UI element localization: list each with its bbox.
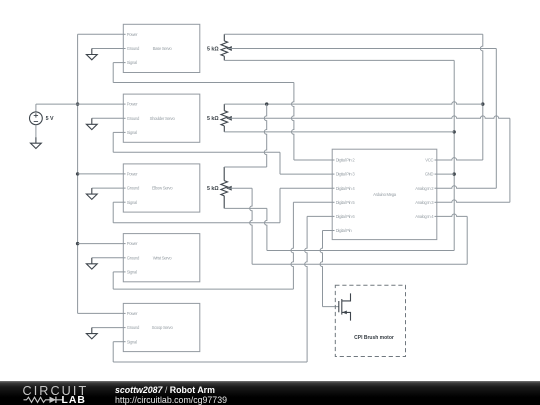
- svg-text:LAB: LAB: [62, 395, 86, 405]
- svg-text:Ground: Ground: [127, 186, 140, 191]
- node 5V-elbow junction: [76, 172, 79, 175]
- svg-text:Base Servo: Base Servo: [153, 46, 173, 51]
- ground for servo5: [86, 328, 97, 339]
- svg-text:5 kΩ: 5 kΩ: [207, 186, 219, 192]
- svg-text:Scoop Servo: Scoop Servo: [152, 325, 174, 330]
- wire wrist signal: [113, 272, 293, 289]
- servo box U5 Scoop Servo: [123, 303, 200, 351]
- svg-text:Ground: Ground: [127, 255, 140, 260]
- transistor Q1 NMOS: [339, 293, 351, 320]
- wire In3 pin: [437, 200, 510, 202]
- svg-text:5 V: 5 V: [46, 116, 54, 122]
- svg-text:Analog In 4: Analog In 4: [415, 214, 434, 219]
- wire base signal riser to pin2: [292, 83, 333, 161]
- wire servo4 ground: [92, 257, 124, 259]
- svg-text:Digital Pin 4: Digital Pin 4: [336, 186, 356, 191]
- wire scoop signal: [113, 342, 307, 362]
- node R2top-link junction: [265, 102, 268, 105]
- wire servo3 ground: [92, 187, 124, 189]
- svg-text:Ground: Ground: [127, 116, 140, 121]
- wire 5V rail: [77, 34, 79, 313]
- node 5V-shoulder junction: [76, 102, 79, 105]
- svg-text:Digital Pin 3: Digital Pin 3: [336, 172, 356, 177]
- svg-text:Signal: Signal: [127, 130, 137, 135]
- node VCC-R2 junction: [481, 102, 484, 105]
- wire elbow signal riser to pin4: [280, 188, 332, 223]
- wire shoulder signal: [113, 132, 280, 152]
- svg-text:Elbow Servo: Elbow Servo: [152, 186, 173, 191]
- servo box U1 Base Servo: [123, 24, 200, 72]
- svg-text:Power: Power: [127, 102, 138, 107]
- CircuitLab logo: [23, 384, 89, 405]
- wire V1 to shoulder power: [36, 103, 123, 105]
- svg-text:Analog In 3: Analog In 3: [415, 200, 434, 205]
- wire R2 wiper to In3: [228, 116, 510, 118]
- svg-text:Signal: Signal: [127, 200, 137, 205]
- svg-text:Signal: Signal: [127, 270, 137, 275]
- svg-text:Shoulder Servo: Shoulder Servo: [150, 116, 176, 121]
- servo box U4 Wrist Servo: [123, 234, 200, 282]
- wire In4 pin: [437, 214, 467, 216]
- wire shoulder signal riser to pin3: [280, 152, 332, 174]
- wire base signal: [113, 63, 294, 83]
- wire R3 bottom drop: [265, 208, 267, 250]
- wire elbow power: [78, 173, 124, 175]
- svg-text:Power: Power: [127, 241, 138, 246]
- wire pin7 to gate: [320, 231, 339, 307]
- wire base power: [78, 33, 124, 35]
- wire R2 bottom: [224, 131, 454, 133]
- wire link to R3 top: [224, 166, 267, 168]
- servo box U2 Shoulder Servo: [123, 94, 200, 142]
- ground for servo3: [86, 188, 97, 199]
- wire R3 wiper: [228, 187, 252, 189]
- svg-text:Digital Pin 5: Digital Pin 5: [336, 200, 356, 205]
- voltage source V1 5 V: [30, 104, 55, 137]
- wire servo2 ground: [92, 117, 124, 119]
- svg-text:Power: Power: [127, 32, 138, 37]
- wire In2 rail: [495, 49, 497, 189]
- svg-text:Signal: Signal: [127, 60, 137, 65]
- potentiometer R2 5k: [207, 104, 232, 132]
- wire In3 rail: [509, 118, 511, 202]
- svg-text:Ground: Ground: [127, 46, 140, 51]
- ground for V1: [31, 137, 42, 148]
- wire R1 top to VCC rail: [224, 33, 483, 35]
- wire wrist power: [78, 243, 124, 245]
- wire scoop signal riser to pin6: [305, 216, 333, 362]
- subcircuit box CPI Brush motor: [335, 285, 405, 356]
- wire servo5 ground: [92, 327, 124, 329]
- wire pot-top link vertical: [264, 104, 266, 167]
- svg-text:Power: Power: [127, 172, 138, 177]
- ground for servo4: [86, 258, 97, 269]
- svg-text:Ground: Ground: [127, 325, 140, 330]
- wire R1 bottom to GND rail: [224, 59, 454, 61]
- servo box U3 Elbow Servo: [123, 164, 200, 212]
- svg-text:Wrist Servo: Wrist Servo: [153, 255, 172, 260]
- svg-text:Digital Pin 2: Digital Pin 2: [336, 158, 356, 163]
- wire servo1 ground: [92, 48, 124, 50]
- wire wrap-under GND: [267, 250, 454, 252]
- svg-text:Digital Pin: Digital Pin: [336, 228, 353, 233]
- potentiometer R1 5k: [207, 34, 232, 60]
- svg-text:CPI Brush motor: CPI Brush motor: [354, 335, 394, 341]
- svg-text:Arduino Mega: Arduino Mega: [373, 192, 397, 197]
- wire wrap-under In4: [252, 263, 467, 265]
- wire GND pin: [437, 173, 454, 175]
- wire R3 wiper drop: [250, 188, 252, 264]
- svg-text:VCC: VCC: [425, 158, 433, 163]
- wire In4 rail: [466, 216, 468, 264]
- node GND-R2 junction: [453, 130, 456, 133]
- potentiometer R3 5k: [207, 167, 231, 208]
- svg-text:GND: GND: [425, 172, 434, 177]
- svg-text:Power: Power: [127, 311, 138, 316]
- wire R2 top: [224, 102, 483, 104]
- wire scoop power: [78, 312, 124, 314]
- wire VCC rail: [480, 34, 482, 160]
- wire wrist signal riser to pin5: [291, 202, 332, 289]
- wire In2 pin: [437, 186, 497, 188]
- wire R1 wiper to In2: [228, 48, 496, 50]
- svg-text:5 kΩ: 5 kΩ: [207, 46, 219, 52]
- ground for servo1: [86, 49, 97, 60]
- wire elbow signal: [113, 202, 280, 223]
- node 5V-wrist junction: [76, 242, 79, 245]
- svg-text:Digital Pin 6: Digital Pin 6: [336, 214, 356, 219]
- svg-text:5 kΩ: 5 kΩ: [207, 116, 219, 122]
- node GND-pin junction: [453, 172, 456, 175]
- svg-text:Analog In 2: Analog In 2: [415, 186, 434, 191]
- svg-text:Signal: Signal: [127, 339, 137, 344]
- arduino U6 Arduino Mega: [332, 149, 437, 239]
- wire VCC pin: [437, 158, 483, 160]
- ground for servo2: [86, 118, 97, 129]
- wire R3 bottom: [224, 207, 267, 209]
- wire GND rail: [453, 60, 455, 250]
